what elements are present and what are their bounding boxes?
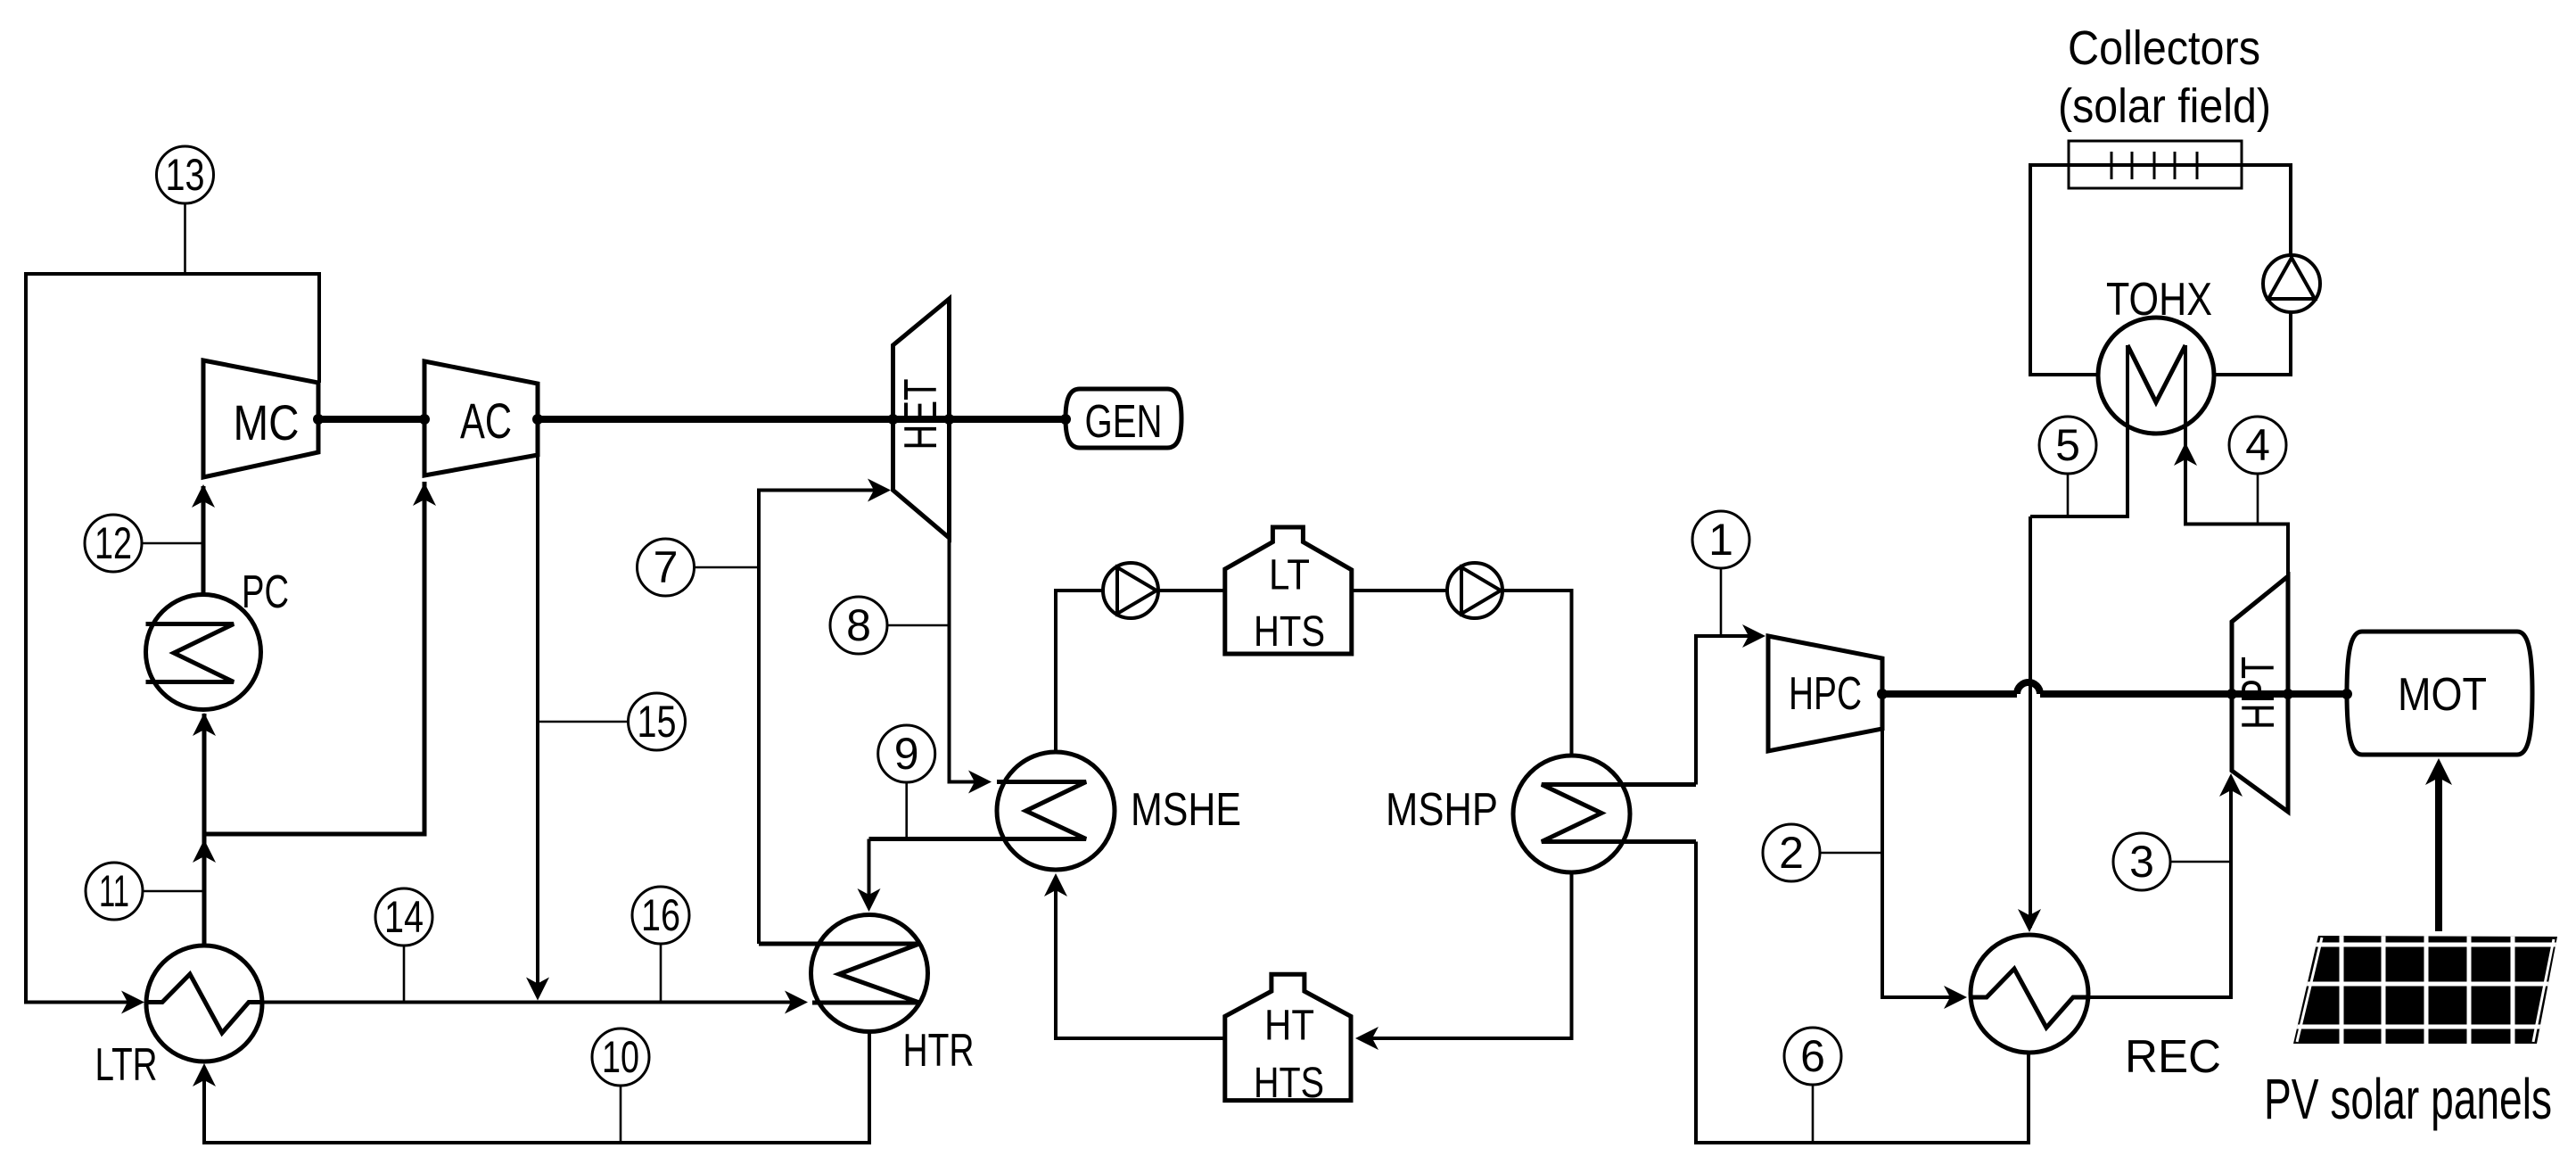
svg-text:LT: LT: [1269, 552, 1310, 599]
svg-text:GEN: GEN: [1085, 396, 1163, 448]
svg-text:1: 1: [1708, 515, 1733, 565]
svg-text:HTS: HTS: [1254, 1060, 1324, 1107]
svg-text:4: 4: [2245, 420, 2270, 470]
svg-text:8: 8: [846, 600, 871, 650]
svg-text:PV solar panels: PV solar panels: [2264, 1067, 2552, 1131]
svg-text:9: 9: [894, 729, 919, 779]
svg-text:HPC: HPC: [1789, 668, 1862, 720]
svg-text:6: 6: [1800, 1031, 1825, 1081]
svg-text:REC: REC: [2125, 1031, 2221, 1083]
svg-text:15: 15: [638, 697, 677, 747]
svg-text:11: 11: [99, 866, 129, 916]
svg-text:MOT: MOT: [2398, 669, 2487, 721]
svg-text:5: 5: [2055, 420, 2080, 470]
svg-text:TOHX: TOHX: [2106, 274, 2212, 326]
svg-text:AC: AC: [460, 392, 512, 449]
svg-text:PC: PC: [242, 566, 289, 618]
svg-text:12: 12: [95, 518, 132, 568]
svg-text:7: 7: [654, 542, 679, 592]
svg-text:HT: HT: [1264, 1003, 1314, 1050]
svg-text:3: 3: [2129, 837, 2154, 887]
svg-text:HPT: HPT: [2233, 657, 2284, 730]
svg-text:HET: HET: [895, 379, 947, 450]
svg-text:LTR: LTR: [95, 1039, 158, 1091]
svg-text:MSHE: MSHE: [1131, 784, 1241, 836]
svg-text:16: 16: [641, 890, 680, 940]
svg-text:13: 13: [166, 150, 205, 200]
svg-text:HTR: HTR: [903, 1025, 975, 1077]
svg-text:10: 10: [602, 1032, 639, 1082]
svg-text:2: 2: [1779, 828, 1804, 878]
svg-text:MC: MC: [234, 394, 300, 450]
svg-text:Collectors: Collectors: [2068, 21, 2260, 75]
svg-text:MSHP: MSHP: [1386, 784, 1498, 836]
svg-text:14: 14: [384, 892, 424, 942]
svg-text:HTS: HTS: [1254, 608, 1325, 656]
svg-text:(solar field): (solar field): [2058, 79, 2271, 133]
